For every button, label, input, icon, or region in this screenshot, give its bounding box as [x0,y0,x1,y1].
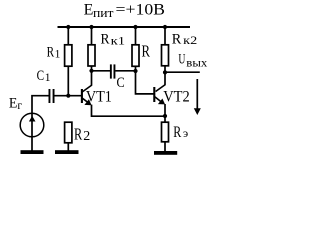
svg-text:пит: пит [93,6,114,20]
svg-text:2: 2 [83,129,90,144]
svg-text:VT2: VT2 [163,89,190,106]
svg-text:Е: Е [9,96,18,112]
svg-text:R: R [101,32,110,48]
svg-text:R: R [47,45,55,61]
svg-text:R: R [173,124,181,141]
svg-text:1: 1 [45,72,51,84]
svg-text:VT1: VT1 [86,89,112,106]
svg-text:=+10В: =+10В [116,2,166,19]
svg-text:R: R [172,31,182,47]
svg-text:к1: к1 [111,35,126,47]
svg-text:C: C [37,68,45,84]
svg-text:Е: Е [84,2,94,19]
svg-text:э: э [183,126,188,140]
svg-text:R: R [142,42,151,61]
svg-text:R: R [74,125,83,144]
svg-text:г: г [17,100,22,112]
svg-text:вых: вых [186,57,207,69]
svg-text:к2: к2 [183,35,197,47]
svg-text:U: U [178,52,185,68]
svg-text:C: C [117,75,125,91]
svg-text:1: 1 [55,48,61,60]
